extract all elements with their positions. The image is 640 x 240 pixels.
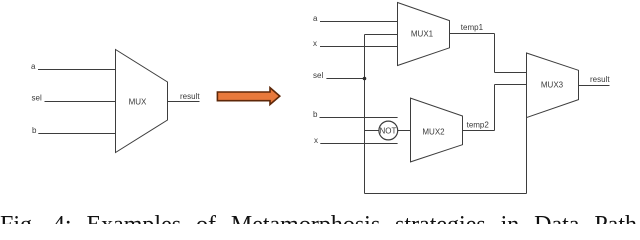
svg-text:x: x [314,136,318,145]
mux U1 (MUX1 trapezoid) [398,3,450,66]
wire temp1 (MUX1 output) [450,33,495,35]
wire sel to NOT [365,130,379,132]
arrow (orange block arrow) [217,88,279,105]
svg-text:MUX2: MUX2 [422,128,445,137]
wire a (right circuit input a) [320,21,398,23]
wire result (left mux output) [168,101,200,103]
wire sel (left mux select) [45,101,116,103]
svg-text:result: result [590,75,610,84]
wire temp2 (MUX2 output) [463,130,495,132]
caption Fig. 4 [0,212,637,238]
wire temp2 vertical [494,85,496,131]
wire x (right circuit input x lower) [320,143,397,145]
wire MUX3 select vertical [526,118,528,194]
wire sel to MUX3 bottom [365,193,527,195]
inverter U4 (NOT bubble) [379,121,398,140]
wire sel (right circuit) [326,78,364,80]
svg-text:MUX3: MUX3 [541,81,564,90]
wire b (left mux input b) [38,133,115,135]
svg-text:NOT: NOT [379,126,396,135]
wire sel to MUX1 [365,34,398,36]
wire b (right circuit input b) [320,117,398,119]
svg-text:MUX1: MUX1 [411,29,434,38]
mux U2 (MUX2 trapezoid) [411,98,463,162]
wire x (right circuit input x upper) [320,46,398,48]
junction sel node [363,77,367,81]
wire a (left mux input a) [38,69,116,71]
wire NOT output to MUX2 [398,130,411,132]
wire result (MUX3 output) [579,85,610,87]
svg-text:result: result [180,92,200,101]
svg-text:sel: sel [313,71,323,80]
mux U3 (MUX3 trapezoid) [527,53,579,118]
mux U0 (left MUX trapezoid) [116,50,168,153]
svg-text:b: b [313,110,318,119]
svg-text:a: a [31,62,36,71]
wire temp1 vertical [494,34,496,73]
svg-text:MUX: MUX [129,97,147,106]
svg-text:temp2: temp2 [467,121,490,130]
wire temp1 to MUX3 [495,72,527,74]
wire temp2 to MUX3 [495,84,527,86]
svg-text:x: x [313,39,317,48]
svg-text:b: b [32,126,37,135]
svg-text:a: a [313,14,318,23]
svg-text:sel: sel [32,94,42,103]
wire sel vertical trunk [364,35,366,194]
svg-text:temp1: temp1 [461,23,484,32]
